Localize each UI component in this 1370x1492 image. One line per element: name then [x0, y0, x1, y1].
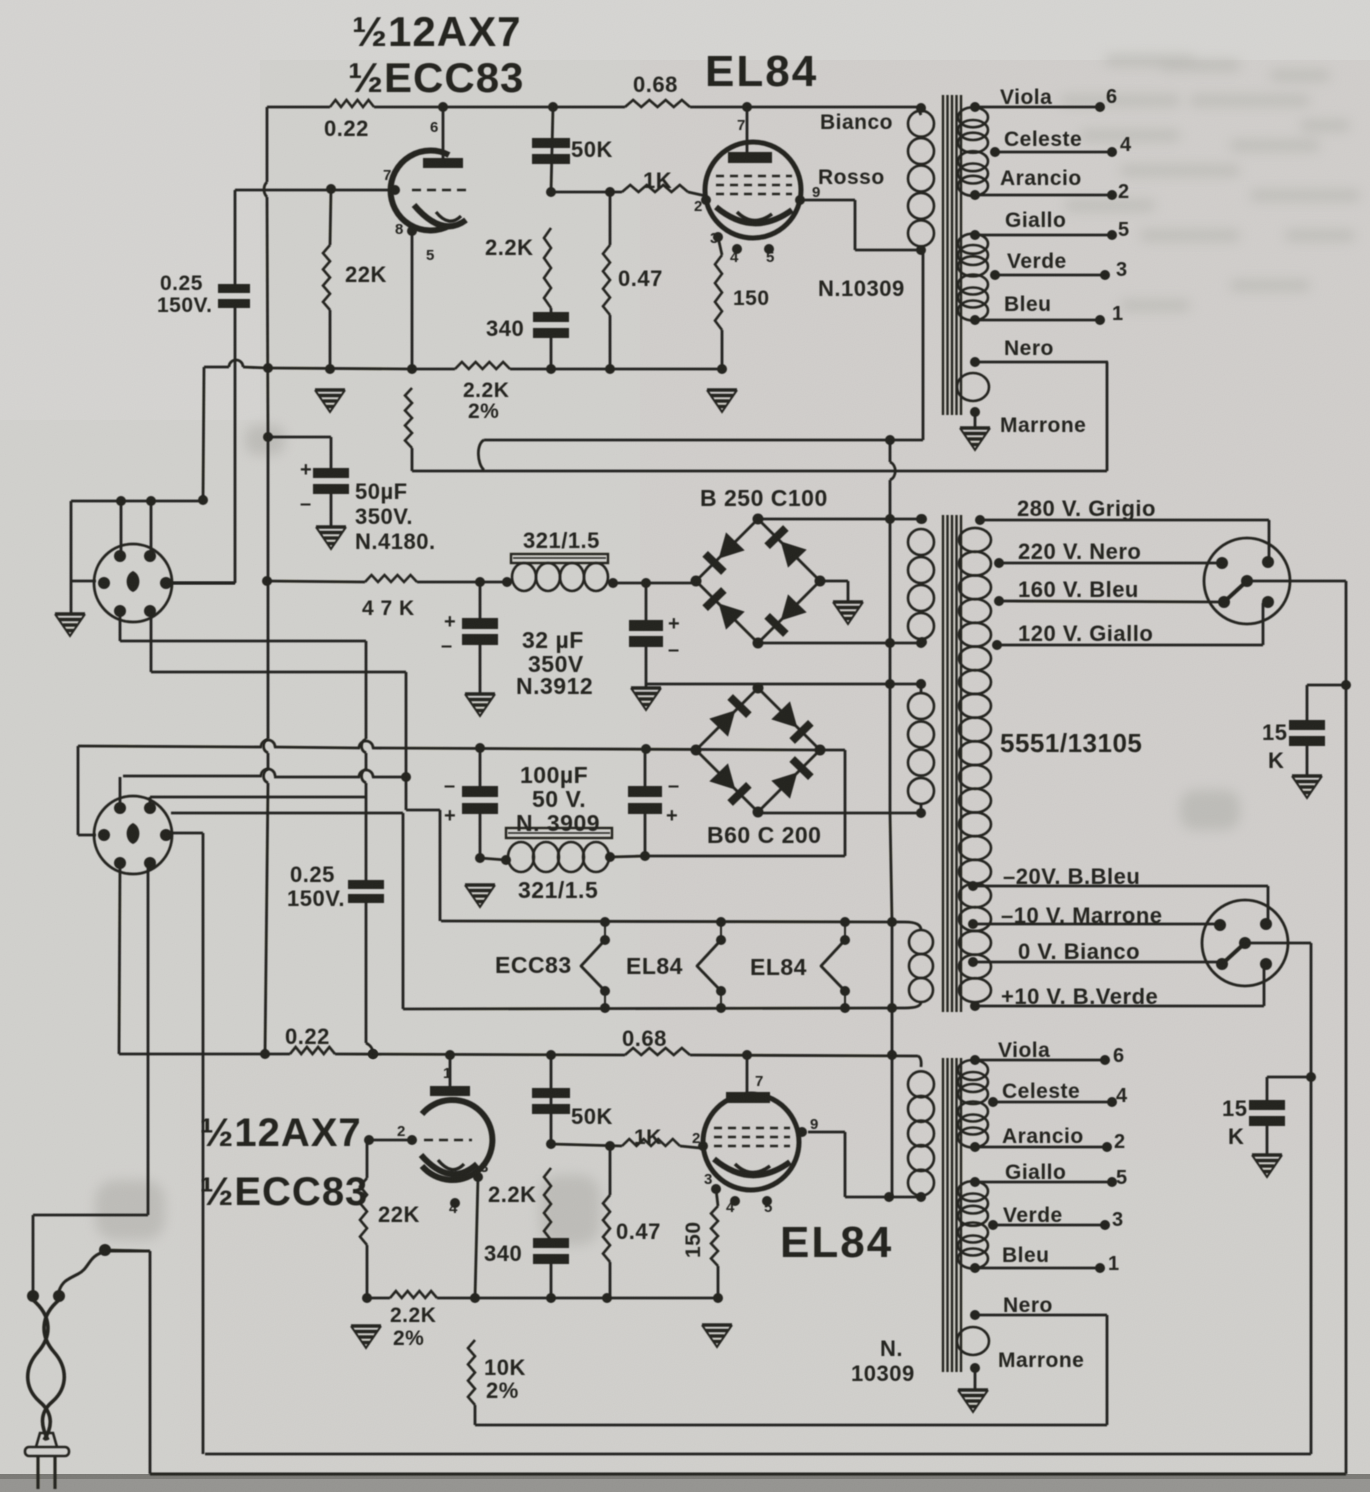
svg-text:1: 1: [443, 1065, 452, 1082]
svg-text:Marrone: Marrone: [1000, 414, 1086, 437]
svg-text:100µF: 100µF: [520, 762, 588, 788]
svg-text:4: 4: [730, 249, 739, 266]
svg-text:3: 3: [704, 1171, 713, 1188]
svg-text:Marrone: Marrone: [998, 1349, 1084, 1372]
svg-text:ECC83: ECC83: [495, 952, 572, 978]
svg-text:2%: 2%: [486, 1378, 519, 1403]
svg-text:2.2K: 2.2K: [485, 235, 533, 260]
svg-text:Verde: Verde: [1007, 250, 1067, 273]
svg-text:Celeste: Celeste: [1004, 128, 1082, 151]
svg-text:15: 15: [1222, 1096, 1247, 1121]
svg-text:50K: 50K: [571, 137, 613, 162]
svg-text:2.2K: 2.2K: [390, 1304, 436, 1327]
svg-text:Giallo: Giallo: [1005, 1161, 1066, 1184]
svg-text:N.10309: N.10309: [818, 276, 905, 301]
svg-text:3: 3: [1112, 1209, 1124, 1231]
svg-text:EL84: EL84: [780, 1218, 893, 1267]
svg-text:0.22: 0.22: [285, 1024, 330, 1049]
svg-text:Viola: Viola: [1000, 86, 1052, 109]
svg-text:340: 340: [486, 316, 524, 341]
svg-text:Nero: Nero: [1003, 1294, 1053, 1317]
svg-text:22K: 22K: [378, 1202, 420, 1227]
svg-text:0.47: 0.47: [616, 1219, 661, 1244]
svg-text:1K: 1K: [643, 168, 672, 193]
svg-text:EL84: EL84: [626, 953, 683, 979]
svg-text:4: 4: [726, 1199, 735, 1216]
svg-text:1: 1: [1112, 303, 1124, 325]
svg-text:–: –: [668, 775, 680, 797]
svg-text:–: –: [300, 493, 312, 515]
svg-text:4: 4: [1116, 1085, 1128, 1107]
svg-text:EL84: EL84: [705, 47, 818, 96]
svg-text:–20V. B.Bleu: –20V. B.Bleu: [1003, 864, 1140, 889]
svg-text:+: +: [444, 805, 456, 827]
svg-text:340: 340: [484, 1241, 522, 1266]
svg-text:1: 1: [1108, 1253, 1120, 1275]
svg-text:2: 2: [1114, 1131, 1126, 1153]
svg-text:Bleu: Bleu: [1002, 1244, 1050, 1267]
svg-text:EL84: EL84: [750, 954, 807, 980]
svg-text:0 V. Bianco: 0 V. Bianco: [1018, 939, 1140, 964]
svg-text:Giallo: Giallo: [1005, 209, 1066, 232]
svg-text:Arancio: Arancio: [1002, 1125, 1084, 1148]
svg-text:+: +: [666, 805, 678, 827]
svg-text:Celeste: Celeste: [1002, 1080, 1080, 1103]
svg-text:2: 2: [692, 1130, 701, 1147]
svg-text:7: 7: [737, 117, 746, 134]
svg-text:5: 5: [764, 1199, 773, 1216]
svg-text:2: 2: [397, 1123, 406, 1140]
svg-text:150: 150: [733, 287, 770, 310]
svg-text:K: K: [1268, 748, 1284, 773]
svg-text:5: 5: [1118, 219, 1130, 241]
svg-text:2: 2: [1118, 181, 1130, 203]
svg-text:2: 2: [694, 198, 703, 215]
svg-text:0.47: 0.47: [618, 266, 663, 291]
svg-text:5: 5: [1116, 1167, 1128, 1189]
svg-text:2%: 2%: [393, 1327, 424, 1350]
svg-text:3: 3: [1116, 259, 1128, 281]
svg-text:Bleu: Bleu: [1004, 293, 1052, 316]
svg-text:321/1.5: 321/1.5: [518, 877, 598, 903]
svg-text:150: 150: [682, 1221, 705, 1258]
svg-text:N.4180.: N.4180.: [355, 529, 436, 554]
svg-text:–: –: [444, 775, 456, 797]
svg-text:½ECC83: ½ECC83: [200, 1170, 368, 1214]
svg-text:9: 9: [812, 184, 821, 201]
svg-text:5551/13105: 5551/13105: [1000, 728, 1142, 758]
svg-text:6: 6: [1106, 86, 1118, 108]
svg-text:+: +: [444, 611, 456, 633]
svg-text:10309: 10309: [851, 1361, 915, 1386]
svg-text:N.: N.: [880, 1336, 903, 1361]
svg-text:6: 6: [430, 119, 439, 136]
svg-text:B60 C 200: B60 C 200: [707, 822, 821, 848]
svg-text:½12AX7: ½12AX7: [352, 8, 521, 55]
svg-text:32 µF: 32 µF: [522, 627, 584, 653]
svg-text:+10 V. B.Verde: +10 V. B.Verde: [1001, 984, 1158, 1009]
svg-text:1K: 1K: [634, 1126, 662, 1149]
svg-text:15: 15: [1262, 720, 1287, 745]
svg-text:2%: 2%: [468, 400, 499, 423]
svg-text:10K: 10K: [484, 1355, 526, 1380]
svg-text:–: –: [441, 635, 453, 657]
svg-text:3: 3: [710, 230, 719, 247]
svg-text:7: 7: [383, 167, 392, 184]
svg-text:50µF: 50µF: [355, 479, 408, 504]
svg-text:+: +: [668, 613, 680, 635]
svg-text:Bianco: Bianco: [820, 111, 893, 134]
svg-text:K: K: [1228, 1124, 1244, 1149]
svg-text:2.2K: 2.2K: [488, 1182, 536, 1207]
svg-text:Nero: Nero: [1004, 337, 1054, 360]
svg-text:0.22: 0.22: [324, 116, 369, 141]
svg-text:6: 6: [1113, 1045, 1125, 1067]
svg-text:0.68: 0.68: [622, 1026, 667, 1051]
svg-text:N. 3909: N. 3909: [516, 810, 600, 836]
svg-text:50 V.: 50 V.: [532, 786, 586, 812]
svg-text:–10 V. Marrone: –10 V. Marrone: [1001, 903, 1163, 928]
svg-text:150V.: 150V.: [157, 294, 212, 317]
svg-text:½12AX7: ½12AX7: [200, 1111, 362, 1155]
svg-text:3: 3: [480, 1159, 489, 1176]
svg-text:0.25: 0.25: [290, 862, 335, 887]
svg-text:4 7 K: 4 7 K: [362, 597, 415, 620]
svg-text:4: 4: [449, 1200, 458, 1217]
svg-text:120 V. Giallo: 120 V. Giallo: [1018, 621, 1153, 646]
svg-text:350V.: 350V.: [355, 504, 413, 529]
svg-text:B 250 C100: B 250 C100: [700, 485, 828, 511]
svg-text:0.25: 0.25: [160, 272, 203, 295]
svg-text:+: +: [300, 459, 312, 481]
svg-text:22K: 22K: [345, 262, 387, 287]
svg-text:N.3912: N.3912: [516, 673, 593, 699]
svg-text:160 V. Bleu: 160 V. Bleu: [1018, 577, 1139, 602]
svg-text:0.68: 0.68: [633, 72, 678, 97]
svg-text:Arancio: Arancio: [1000, 167, 1082, 190]
svg-text:Verde: Verde: [1003, 1204, 1063, 1227]
svg-text:5: 5: [426, 247, 435, 264]
svg-text:280 V. Grigio: 280 V. Grigio: [1017, 496, 1156, 521]
svg-text:2.2K: 2.2K: [463, 379, 509, 402]
svg-text:Viola: Viola: [998, 1039, 1050, 1062]
svg-text:50K: 50K: [571, 1104, 613, 1129]
svg-text:½ECC83: ½ECC83: [348, 54, 524, 101]
svg-text:220 V. Nero: 220 V. Nero: [1018, 539, 1141, 564]
svg-text:321/1.5: 321/1.5: [523, 528, 600, 553]
svg-text:7: 7: [755, 1073, 764, 1090]
svg-text:5: 5: [766, 249, 775, 266]
svg-text:–: –: [668, 639, 680, 661]
svg-text:Rosso: Rosso: [818, 166, 885, 189]
svg-text:8: 8: [395, 221, 404, 238]
svg-text:4: 4: [1120, 134, 1132, 156]
svg-text:150V.: 150V.: [287, 886, 345, 911]
svg-text:9: 9: [810, 1116, 819, 1133]
